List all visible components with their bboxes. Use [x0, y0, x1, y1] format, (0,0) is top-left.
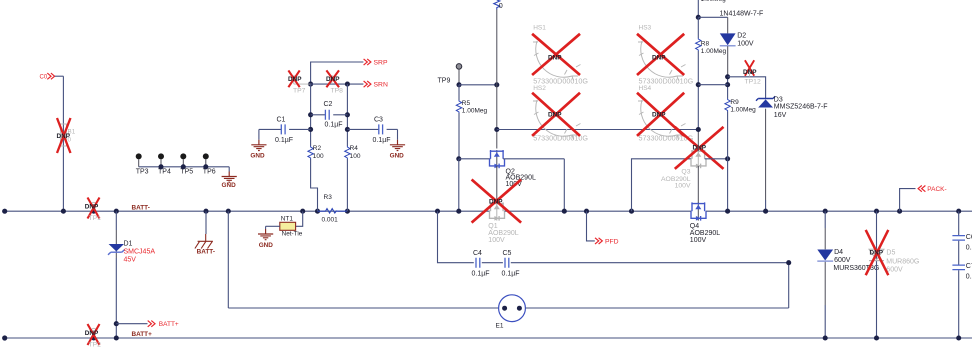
- wire center column top: [496, 10, 498, 149]
- svg-text:Net-Tie: Net-Tie: [282, 231, 303, 238]
- testpoint TP2 (DNP): [92, 328, 96, 332]
- heatsink HS1 (DNP): [533, 41, 581, 81]
- testpoint TP4: [158, 153, 164, 159]
- wire D2 bottom: [727, 46, 729, 77]
- svg-text:C3: C3: [374, 117, 383, 124]
- svg-text:C6: C6: [966, 234, 972, 241]
- svg-text:BATT-: BATT-: [132, 204, 150, 211]
- port SRN: [364, 81, 371, 87]
- wire NT1 left: [266, 225, 280, 227]
- resistor R4 100: [345, 146, 350, 159]
- wire Q2 to Q1: [496, 166, 498, 204]
- DNP X over TP7: [288, 70, 299, 87]
- svg-text:100: 100: [313, 153, 324, 160]
- svg-text:600V: 600V: [886, 266, 903, 273]
- diode D2 1N4148W: [720, 33, 736, 45]
- wire Q3 gate: [629, 209, 634, 214]
- fuse B1 (DNP): [60, 124, 66, 146]
- wire BATT- rail: [5, 210, 490, 212]
- svg-text:DNP: DNP: [870, 249, 884, 256]
- capacitor C4: [476, 258, 480, 268]
- svg-text:R2: R2: [313, 145, 322, 152]
- heatsink HS3 (DNP): [638, 41, 686, 81]
- svg-text:SRP: SRP: [374, 60, 388, 67]
- svg-text:GND: GND: [250, 152, 265, 159]
- heatsink HS2 (DNP): [533, 100, 581, 140]
- ground GND (TP6): [222, 172, 237, 183]
- testpoint TP1 (DNP): [92, 202, 96, 206]
- wire D3 to rail: [765, 109, 767, 200]
- capacitor C7: [952, 265, 965, 270]
- svg-text:100V: 100V: [675, 182, 691, 189]
- svg-text:573300D00010G: 573300D00010G: [639, 76, 694, 85]
- resistor R9 1.00Meg: [725, 99, 730, 112]
- svg-text:R5: R5: [462, 100, 471, 107]
- svg-text:HS1: HS1: [533, 25, 546, 32]
- wire D2 top: [698, 16, 727, 18]
- svg-text:D2: D2: [737, 32, 746, 39]
- svg-text:0.1µF: 0.1µF: [966, 244, 972, 251]
- port SRP: [364, 59, 371, 65]
- testpoint TP8 (DNP): [330, 76, 334, 80]
- wire TP12 branch: [728, 77, 766, 99]
- svg-text:MURS360T3G: MURS360T3G: [833, 265, 879, 272]
- wire SRP column: [310, 84, 312, 146]
- wire BATT- sym: [203, 209, 208, 214]
- DNP X over B1: [57, 118, 71, 153]
- svg-text:R9: R9: [730, 99, 739, 106]
- svg-text:0.1µF: 0.1µF: [373, 137, 391, 144]
- svg-text:DNP: DNP: [57, 133, 71, 140]
- port BATT+: [114, 321, 119, 326]
- svg-text:DNP: DNP: [743, 69, 757, 76]
- diode D1 SMCJ45A: [109, 244, 124, 251]
- svg-text:E1: E1: [496, 322, 504, 329]
- wire D1 branch: [114, 209, 119, 214]
- wire R2 to R3: [311, 159, 318, 211]
- svg-text:C4: C4: [473, 250, 482, 257]
- DNP X over HS4: [637, 93, 684, 136]
- svg-text:0.1µF: 0.1µF: [966, 273, 972, 280]
- net-tie NT1: [280, 222, 296, 230]
- svg-text:1.00Meg: 1.00Meg: [730, 107, 756, 114]
- svg-text:HS4: HS4: [639, 85, 652, 92]
- wire R4 to R3: [346, 159, 348, 211]
- svg-text:100V: 100V: [690, 237, 707, 244]
- svg-text:BATT-: BATT-: [197, 248, 215, 255]
- capacitor C1: [259, 128, 281, 130]
- svg-text:C1: C1: [277, 117, 286, 124]
- wire SRN column: [346, 84, 348, 146]
- resistor top partial: [494, 0, 500, 10]
- ground GND (C1): [258, 129, 260, 139]
- testpoint TP6: [203, 153, 209, 159]
- svg-text:D1: D1: [124, 241, 133, 248]
- svg-text:600V: 600V: [834, 257, 851, 264]
- svg-text:MMSZ5246B-7-F: MMSZ5246B-7-F: [774, 104, 828, 111]
- svg-text:DNP: DNP: [85, 330, 99, 337]
- svg-text:Q3: Q3: [681, 169, 690, 176]
- svg-text:C7: C7: [966, 263, 972, 270]
- wire R8-D2 link: [698, 84, 727, 86]
- wire BATT+ rail: [5, 337, 972, 339]
- transistor Q1 AOB290L (DNP): [490, 202, 505, 220]
- resistor R3 0.001: [315, 209, 320, 214]
- svg-text:TP12: TP12: [745, 79, 761, 86]
- svg-text:DNP: DNP: [652, 112, 666, 119]
- svg-text:TP1: TP1: [89, 215, 102, 222]
- svg-text:TP6: TP6: [203, 169, 216, 176]
- testpoint TP5: [180, 153, 186, 159]
- wire NT1 right: [300, 209, 305, 214]
- wire C6/C7 column: [956, 209, 961, 214]
- heatsink HS4 (DNP): [638, 100, 686, 140]
- svg-text:1.00Meg: 1.00Meg: [701, 48, 727, 55]
- svg-text:0.1µF: 0.1µF: [472, 271, 490, 278]
- DNP X over HS2: [532, 93, 580, 136]
- transistor Q3 AOB290L (DNP): [691, 150, 706, 168]
- svg-text:D5: D5: [886, 250, 895, 257]
- svg-text:AOB290L: AOB290L: [690, 230, 720, 237]
- svg-text:TP2: TP2: [89, 341, 102, 348]
- testpoint TP12 (DNP): [748, 69, 752, 73]
- svg-text:BATT+: BATT+: [159, 321, 179, 328]
- port PACK-: [897, 209, 902, 214]
- connector E1: [499, 295, 526, 322]
- svg-text:TP4: TP4: [158, 169, 171, 176]
- diode D3 MMSZ5246B zener: [758, 99, 773, 107]
- svg-text:C5: C5: [503, 250, 512, 257]
- svg-text:0.001: 0.001: [322, 216, 339, 223]
- svg-text:DNP: DNP: [548, 55, 562, 62]
- wire D4 branch: [823, 209, 828, 214]
- wire SRP: [311, 62, 364, 84]
- svg-text:HS3: HS3: [639, 25, 652, 32]
- svg-text:SMCJ45A: SMCJ45A: [124, 249, 156, 256]
- wire Q2 gate: [459, 158, 491, 160]
- svg-text:1N4148W-7-F: 1N4148W-7-F: [720, 10, 764, 17]
- DNP X over TP8: [326, 70, 339, 87]
- wire mid link: [497, 129, 699, 131]
- port PFD: [584, 209, 589, 214]
- svg-text:AOB290L: AOB290L: [488, 230, 518, 237]
- svg-text:DNP: DNP: [652, 55, 666, 62]
- wire Q3 right leg: [705, 158, 728, 160]
- testpoint TP9: [456, 64, 462, 70]
- DNP X over Q3: [675, 127, 724, 169]
- svg-text:100V: 100V: [488, 237, 505, 244]
- wire Q3 drain: [697, 130, 699, 152]
- DNP X over HS1: [532, 34, 580, 75]
- diode D5 MUR860G (DNP): [869, 249, 884, 259]
- svg-text:1.00Meg: 1.00Meg: [701, 0, 727, 3]
- power symbol BATT-: [195, 241, 213, 248]
- DNP X over Q1: [472, 180, 521, 223]
- svg-text:Q1: Q1: [488, 223, 497, 230]
- svg-text:DNP: DNP: [288, 76, 302, 83]
- capacitor C2: [311, 114, 326, 116]
- svg-text:DNP: DNP: [489, 199, 503, 206]
- svg-text:0.1µF: 0.1µF: [275, 137, 293, 144]
- wire C4 branch: [435, 209, 440, 214]
- testpoint TP7 (DNP): [292, 76, 296, 80]
- svg-text:DNP: DNP: [85, 204, 99, 211]
- wire R9 to rail: [727, 112, 729, 212]
- transistor Q4 AOB290L: [691, 202, 706, 220]
- svg-text:GND: GND: [221, 182, 236, 189]
- svg-text:DNP: DNP: [326, 76, 340, 83]
- svg-text:DNP: DNP: [693, 145, 707, 152]
- svg-text:GND: GND: [390, 152, 405, 159]
- svg-text:0: 0: [499, 1, 503, 10]
- DNP X over HS3: [637, 34, 684, 75]
- svg-text:TP9: TP9: [438, 78, 451, 85]
- wire C0 to BATT-: [62, 76, 64, 211]
- wire TP3-TP6: [139, 166, 230, 168]
- wire SRN: [311, 83, 364, 85]
- DNP X over TP1: [88, 198, 100, 219]
- svg-text:C0: C0: [40, 74, 48, 80]
- svg-text:MUR860G: MUR860G: [886, 258, 919, 265]
- wire Q2 right leg: [503, 158, 564, 160]
- capacitor C6: [952, 236, 965, 241]
- svg-text:DNP: DNP: [548, 112, 562, 119]
- svg-text:Q4: Q4: [690, 223, 699, 230]
- svg-text:D4: D4: [834, 249, 843, 256]
- svg-text:C2: C2: [324, 101, 333, 108]
- resistor R5 1.00Meg: [458, 85, 460, 100]
- diode D4 MURS360T3G: [817, 250, 833, 261]
- svg-text:R8: R8: [701, 40, 710, 47]
- capacitor C5: [505, 258, 509, 268]
- wire R8 bottom: [697, 51, 699, 130]
- svg-text:573300D00010G: 573300D00010G: [533, 76, 588, 85]
- svg-text:0.1µF: 0.1µF: [325, 121, 343, 128]
- svg-text:HS2: HS2: [533, 85, 546, 92]
- wire TP9 cross: [456, 82, 461, 87]
- svg-text:TP5: TP5: [180, 169, 193, 176]
- svg-text:16V: 16V: [774, 112, 787, 119]
- ground GND (NT1): [265, 226, 267, 229]
- wire Q3 to Q4: [697, 166, 699, 204]
- svg-text:45V: 45V: [124, 257, 137, 264]
- DNP X over TP2: [88, 324, 100, 345]
- svg-text:NT1: NT1: [281, 216, 294, 223]
- wire D5 branch: [874, 209, 879, 214]
- svg-text:TP7: TP7: [293, 88, 306, 95]
- resistor R2 100: [308, 146, 313, 159]
- testpoint TP3: [136, 153, 142, 159]
- svg-text:100: 100: [350, 153, 361, 160]
- svg-text:R4: R4: [350, 145, 359, 152]
- svg-text:100V: 100V: [737, 41, 754, 48]
- svg-text:SRN: SRN: [374, 82, 388, 89]
- ground GND (C3): [397, 129, 399, 139]
- DNP X over TP12: [745, 60, 754, 75]
- wire R5 to gate node: [458, 113, 460, 159]
- wire E1 to C5 node: [525, 307, 788, 309]
- svg-text:BATT+: BATT+: [132, 331, 153, 338]
- svg-text:0.1µF: 0.1µF: [502, 271, 520, 278]
- DNP X over D5: [866, 230, 889, 275]
- resistor R8 1.00Meg: [697, 17, 699, 38]
- wire to E1: [226, 209, 231, 214]
- svg-text:GND: GND: [259, 242, 274, 249]
- transistor Q2 AOB290L: [490, 150, 505, 168]
- svg-text:1.00Meg: 1.00Meg: [462, 108, 488, 115]
- wire gate node to rail: [458, 159, 460, 211]
- svg-text:TP3: TP3: [136, 169, 149, 176]
- svg-text:R3: R3: [324, 194, 333, 201]
- capacitor C3: [347, 128, 378, 130]
- svg-text:PFD: PFD: [605, 238, 619, 245]
- svg-text:PACK-: PACK-: [927, 186, 946, 193]
- wire R6 column top: [697, 0, 699, 17]
- svg-text:TP8: TP8: [331, 88, 344, 95]
- svg-text:D3: D3: [774, 97, 783, 104]
